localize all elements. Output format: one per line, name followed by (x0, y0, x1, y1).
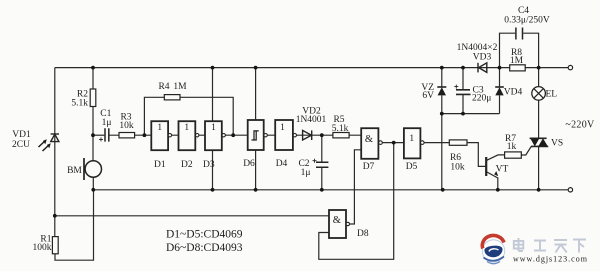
svg-text:VT: VT (496, 165, 509, 175)
svg-text:2CU: 2CU (12, 140, 30, 150)
svg-text:D6: D6 (243, 159, 255, 169)
svg-text:0.33μ/250V: 0.33μ/250V (504, 16, 550, 26)
svg-text:D8: D8 (357, 229, 369, 239)
svg-text:www.dgjs123.com: www.dgjs123.com (513, 255, 588, 264)
svg-text:1: 1 (184, 123, 189, 133)
svg-text:&: & (365, 134, 373, 145)
svg-text:D3: D3 (203, 160, 215, 170)
svg-text:VD3: VD3 (473, 53, 492, 63)
svg-text:D2: D2 (181, 160, 193, 170)
svg-text:VS: VS (551, 139, 563, 149)
svg-text:5.1k: 5.1k (71, 99, 88, 109)
svg-text:VD1: VD1 (12, 130, 31, 140)
svg-text:D7: D7 (363, 162, 375, 172)
svg-text:D5: D5 (406, 162, 418, 172)
svg-text:100k: 100k (33, 243, 52, 253)
svg-text:5.1k: 5.1k (332, 124, 349, 134)
svg-text:D6~D8:CD4093: D6~D8:CD4093 (166, 242, 243, 254)
svg-text:1k: 1k (507, 142, 517, 152)
svg-text:R6: R6 (450, 153, 461, 163)
svg-text:1: 1 (211, 123, 216, 133)
svg-text:1: 1 (280, 123, 285, 133)
svg-text:D1: D1 (154, 160, 166, 170)
svg-text:1μ: 1μ (301, 168, 311, 178)
svg-text:1M: 1M (510, 56, 524, 66)
svg-text:220μ: 220μ (472, 94, 491, 104)
svg-text:6V: 6V (422, 91, 434, 101)
svg-text:1N4001: 1N4001 (296, 115, 327, 125)
svg-text:&: & (333, 215, 341, 226)
svg-text:1: 1 (409, 134, 414, 144)
svg-text:EL: EL (546, 90, 558, 100)
svg-text:10k: 10k (450, 163, 465, 173)
svg-text:C4: C4 (518, 6, 529, 16)
svg-text:D4: D4 (276, 159, 288, 169)
svg-text:R4 1M: R4 1M (158, 82, 187, 92)
svg-text:D1~D5:CD4069: D1~D5:CD4069 (166, 229, 243, 241)
svg-text:1N4004×2: 1N4004×2 (457, 43, 498, 53)
svg-text:1: 1 (157, 123, 162, 133)
svg-text:VD4: VD4 (504, 88, 523, 98)
svg-text:BM: BM (67, 166, 82, 176)
svg-text:1μ: 1μ (102, 118, 112, 128)
svg-text:10k: 10k (119, 121, 134, 131)
svg-text:~220V: ~220V (565, 120, 595, 131)
